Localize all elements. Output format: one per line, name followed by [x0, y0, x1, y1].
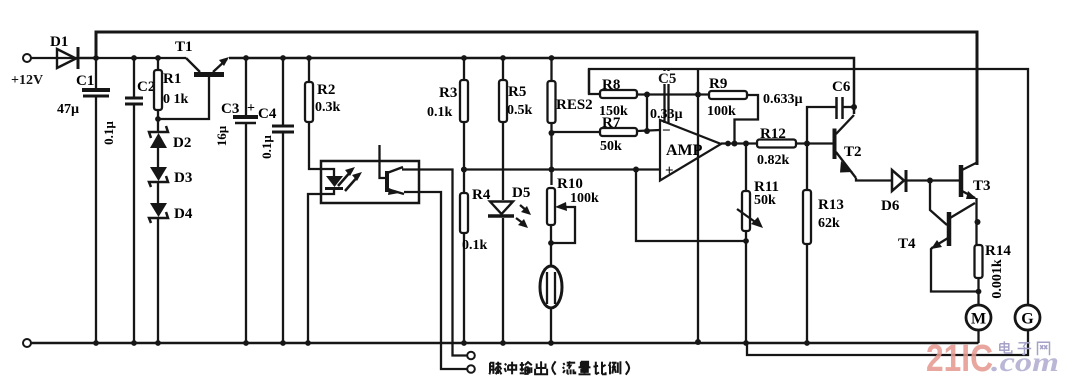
wire emitter to pulse terminal — [404, 192, 467, 369]
svg-text:R5: R5 — [508, 84, 526, 100]
resistor R1 — [154, 55, 189, 119]
wire ground rail — [31, 342, 979, 345]
svg-text:M: M — [971, 311, 986, 328]
motor M — [966, 305, 991, 343]
LED D5 — [488, 185, 531, 346]
wire lower return line — [747, 331, 1028, 355]
resistor R5 — [499, 55, 533, 200]
svg-text:+12V: +12V — [11, 73, 43, 88]
svg-text:G: G — [1021, 311, 1034, 328]
node ground terminal — [23, 339, 31, 347]
svg-text:R12: R12 — [760, 126, 786, 142]
svg-text:R1: R1 — [163, 71, 181, 87]
resistor R2 — [305, 55, 341, 169]
resistor R9 — [707, 76, 758, 147]
capacitor C4 — [258, 55, 294, 346]
transistor T2 — [835, 115, 893, 181]
transistor T3 — [961, 163, 991, 246]
svg-text:150k: 150k — [599, 104, 628, 119]
svg-text:100k: 100k — [570, 191, 599, 206]
diode D3 — [149, 167, 192, 203]
node pulse output terminal 2 — [467, 365, 475, 373]
diode D1 — [50, 34, 96, 69]
svg-text:50k: 50k — [600, 139, 622, 154]
svg-text:0.33µ: 0.33µ — [650, 107, 683, 122]
svg-text:RES2: RES2 — [556, 97, 593, 113]
svg-text:R9: R9 — [709, 76, 727, 92]
svg-text:100k: 100k — [707, 104, 736, 119]
diode D6 — [881, 170, 959, 214]
sensor lamp — [540, 266, 562, 346]
svg-text:0.1µ: 0.1µ — [101, 121, 116, 145]
svg-text:R13: R13 — [818, 197, 844, 213]
resistor R3 — [427, 55, 468, 172]
op-amp AMP — [660, 120, 721, 181]
svg-text:0.3k: 0.3k — [315, 100, 341, 115]
svg-text:D1: D1 — [50, 34, 68, 50]
transistor T4 — [898, 178, 979, 292]
svg-text:C2: C2 — [137, 79, 155, 95]
svg-text:0.5k: 0.5k — [507, 103, 533, 118]
potentiometer R10 — [547, 176, 599, 268]
zener D2 — [149, 119, 191, 167]
svg-text:D2: D2 — [173, 135, 191, 151]
transistor T1 — [155, 39, 229, 122]
svg-text:C5: C5 — [658, 71, 676, 87]
svg-text:47µ: 47µ — [57, 102, 79, 117]
node pulse output terminal 1 — [467, 352, 475, 360]
resistor RES2 — [548, 55, 593, 185]
wire tach feedback line — [589, 69, 1028, 305]
svg-text:0.633µ: 0.633µ — [763, 92, 803, 107]
wire amp + input — [633, 141, 833, 346]
svg-text:62k: 62k — [818, 216, 840, 231]
wire main supply rail — [31, 57, 186, 59]
capacitor C6 — [807, 79, 857, 142]
resistor R14 — [975, 243, 1012, 305]
svg-text:0.1k: 0.1k — [462, 238, 488, 253]
svg-text:0.001k: 0.001k — [990, 259, 1005, 299]
svg-text:0.1k: 0.1k — [427, 105, 453, 120]
diode D4 — [149, 203, 193, 346]
optocoupler box — [321, 161, 419, 203]
optocoupler phototransistor — [380, 145, 405, 195]
potentiometer R11 — [737, 144, 779, 346]
optocoupler LED — [305, 169, 343, 346]
svg-text:0 1k: 0 1k — [163, 92, 189, 107]
svg-text:0.1µ: 0.1µ — [259, 135, 274, 159]
svg-text:C4: C4 — [258, 106, 277, 122]
svg-text:R10: R10 — [557, 176, 583, 192]
optocoupler light arrows — [338, 167, 362, 191]
svg-text:D4: D4 — [174, 206, 193, 222]
svg-text:C3: C3 — [221, 101, 239, 117]
svg-text:C1: C1 — [76, 73, 94, 89]
resistor R7 — [552, 115, 661, 154]
label pulse output chinese — [489, 361, 629, 374]
wire top rail +12V — [96, 32, 977, 165]
svg-text:R14: R14 — [985, 243, 1011, 259]
wire collector tap line — [402, 170, 660, 370]
svg-text:R3: R3 — [439, 85, 457, 101]
resistor R8 — [589, 69, 709, 134]
svg-text:.com: .com — [991, 347, 1059, 377]
svg-text:0.82k: 0.82k — [757, 153, 790, 168]
generator G — [1015, 305, 1040, 330]
svg-text:D5: D5 — [512, 185, 530, 201]
resistor R13 — [803, 141, 844, 346]
wire amp vertical to ground — [697, 69, 699, 342]
svg-text:T3: T3 — [973, 178, 991, 194]
capacitor C2 — [101, 55, 155, 346]
node input terminal — [23, 54, 31, 62]
capacitor C1 — [57, 55, 110, 346]
svg-text:T1: T1 — [175, 39, 193, 55]
svg-text:−: − — [662, 123, 671, 139]
wire tap node line to amp — [461, 168, 660, 170]
capacitor C5 — [650, 70, 683, 124]
capacitor C3 electrolytic — [214, 55, 258, 346]
svg-text:+: + — [665, 163, 674, 179]
svg-text:T4: T4 — [898, 236, 916, 252]
resistor R4 — [460, 170, 491, 346]
watermark dianziwang — [1000, 341, 1050, 355]
svg-text:AMP: AMP — [666, 142, 703, 159]
svg-text:50k: 50k — [754, 193, 776, 208]
svg-text:T2: T2 — [844, 144, 862, 160]
svg-text:R8: R8 — [602, 77, 620, 93]
resistor R12 — [757, 126, 796, 168]
svg-text:D6: D6 — [881, 198, 900, 214]
svg-text:C6: C6 — [832, 79, 851, 95]
wire amp output — [721, 142, 757, 144]
svg-text:+: + — [247, 101, 255, 116]
svg-text:16µ: 16µ — [214, 125, 229, 146]
svg-text:D3: D3 — [174, 170, 192, 186]
svg-text:R2: R2 — [317, 82, 335, 98]
svg-text:21IC: 21IC — [926, 338, 993, 380]
